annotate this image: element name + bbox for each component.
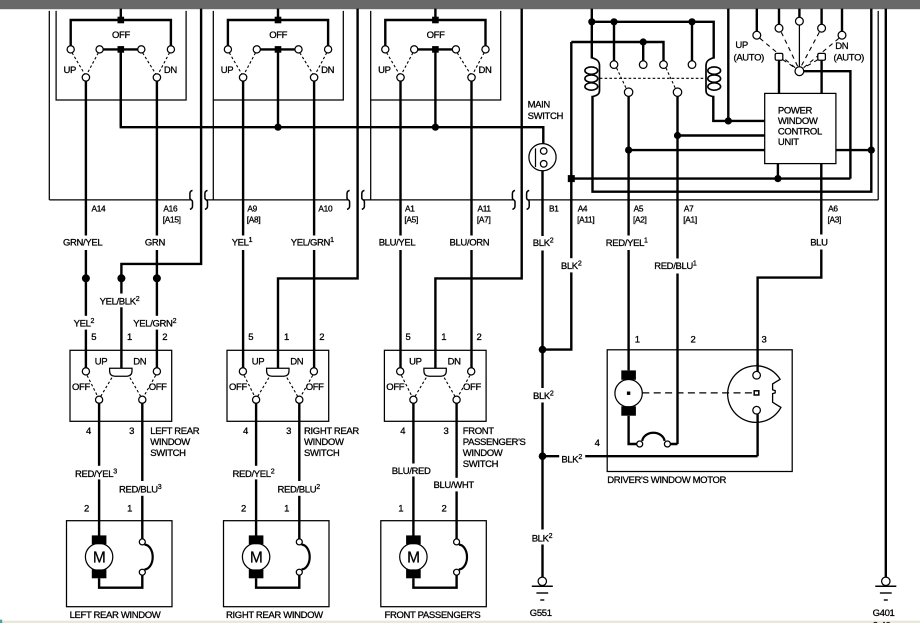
svg-text:BLU/YEL: BLU/YEL	[379, 237, 416, 248]
svg-text:RED/BLU2: RED/BLU2	[278, 484, 321, 496]
right rear window switch pin3 wire	[298, 403, 300, 539]
feeder wire J3 from top into front-passenger switch pin1	[435, 9, 521, 369]
svg-text:SWITCH: SWITCH	[304, 448, 340, 459]
svg-text:G551: G551	[530, 608, 552, 619]
relay throw dash left	[617, 68, 627, 88]
right rear window motor brush bottom	[249, 569, 264, 578]
control unit line y135.5	[678, 134, 765, 136]
svg-text:DN: DN	[164, 65, 178, 76]
label RED/BLU1	[652, 259, 704, 274]
svg-text:SWITCH: SWITCH	[150, 448, 186, 459]
svg-text:OFF: OFF	[306, 382, 324, 393]
label YEL/GRN2	[131, 316, 179, 330]
switch S3 (front passenger section of main switch) contact bar	[414, 48, 456, 50]
svg-text:A9: A9	[247, 204, 257, 214]
wire BLU/ORN (A11 column)	[470, 81, 472, 368]
svg-text:[A1]: [A1]	[683, 215, 697, 225]
wire RED/BLU1 A7 column	[676, 96, 678, 444]
right rear window switch pin5 contact	[239, 368, 246, 375]
svg-text:(AUTO): (AUTO)	[734, 52, 765, 63]
left rear window switch rocker	[110, 368, 132, 376]
label YEL2	[72, 316, 97, 330]
left coil bottom wire loop to top right	[593, 9, 872, 192]
label BLK2 B1 a	[531, 236, 558, 251]
svg-text:2: 2	[241, 503, 246, 514]
right coil bottom wire to control unit	[713, 96, 764, 121]
auto switch top stub	[841, 9, 843, 32]
left rear window motor armature circle	[85, 543, 112, 570]
switch S2 (right rear section of main switch) top wire	[228, 20, 328, 46]
switch S1 (left rear section of main switch) inner box	[56, 11, 186, 100]
svg-text:DN: DN	[479, 65, 493, 76]
switch S1 (left rear section of main switch) junction contact bar	[118, 46, 125, 53]
svg-text:DRIVER'S WINDOW MOTOR: DRIVER'S WINDOW MOTOR	[607, 475, 726, 486]
left rear window switch pin4 wire	[98, 403, 100, 535]
top gray bar	[0, 0, 920, 9]
svg-text:4: 4	[243, 426, 248, 437]
left rear window motor brush top	[92, 535, 107, 544]
wire YEL/GRN1 (A10 column)	[313, 81, 315, 368]
connector brace 4	[362, 190, 365, 209]
switch S1 (left rear section of main switch) feed stub from top	[120, 9, 122, 20]
svg-text:OFF: OFF	[463, 382, 481, 393]
auto switch dashes	[760, 32, 839, 68]
svg-text:UNIT: UNIT	[778, 137, 799, 148]
svg-text:RED/YEL1: RED/YEL1	[606, 237, 648, 249]
switch S3 (front passenger section of main switch) feed stub from top	[434, 9, 436, 20]
auto switch top stub	[798, 9, 800, 18]
main switch assembly bottom edge / connector row	[49, 199, 878, 201]
feeder wire J1 from top into YEL/BLK2	[121, 9, 201, 369]
svg-text:RIGHT REAR: RIGHT REAR	[304, 426, 359, 437]
switch S1 (left rear section of main switch) DN contact	[153, 74, 160, 81]
label BLU/WHT	[432, 478, 480, 492]
right rear window motor bottom loop wire	[256, 575, 299, 588]
right rear window switch rocker	[267, 368, 289, 376]
relay coil left	[592, 58, 599, 97]
auto switch top contact	[775, 24, 783, 32]
line y178.6	[571, 177, 850, 179]
svg-text:[A11]: [A11]	[577, 215, 594, 225]
svg-text:(AUTO): (AUTO)	[834, 52, 865, 63]
switch S2 (right rear section of main switch) inner box	[213, 11, 343, 100]
auto switch pivot	[795, 67, 804, 76]
bus junction S3	[432, 124, 439, 131]
main switch assembly outer box right edge	[877, 11, 879, 200]
junction relay top 1	[588, 18, 595, 25]
relay fixed contact	[688, 61, 696, 69]
svg-text:[A5]: [A5]	[404, 215, 418, 225]
svg-text:B1: B1	[549, 204, 559, 214]
right rear window switch pin2 contact	[310, 368, 317, 375]
switch S2 (right rear section of main switch) center wire down	[277, 49, 279, 127]
connector brace 5	[512, 190, 515, 209]
svg-text:RED/YEL3: RED/YEL3	[75, 469, 117, 481]
svg-text:PASSENGER'S: PASSENGER'S	[463, 437, 526, 448]
svg-text:A16: A16	[163, 204, 178, 214]
left rear window switch pin4 contact	[96, 396, 103, 403]
label RED/YEL1	[604, 236, 656, 251]
left rear window switch pin5 contact	[82, 368, 89, 375]
left rear window motor breaker bottom contact	[139, 569, 145, 575]
svg-text:WINDOW: WINDOW	[150, 437, 190, 448]
wire BLU/YEL (A1 column)	[399, 81, 401, 368]
svg-text:3: 3	[443, 426, 448, 437]
left rear window motor brush bottom	[92, 569, 107, 578]
right rear window switch pin4 wire	[255, 403, 257, 535]
switch S1 (left rear section of main switch) contact bar	[100, 48, 142, 50]
bus junction S2	[274, 124, 281, 131]
auto DN wire	[820, 61, 822, 94]
left rear window motor box	[67, 521, 173, 607]
svg-text:WINDOW: WINDOW	[778, 116, 818, 127]
switch S1 (left rear section of main switch) contact	[167, 46, 174, 53]
wire stub into disc to top contact	[756, 364, 758, 372]
svg-text:1: 1	[127, 503, 132, 514]
left rear window motor bottom loop wire	[99, 575, 142, 588]
label GRN/YEL	[62, 236, 103, 251]
svg-text:DN: DN	[448, 357, 462, 368]
switch S2 (right rear section of main switch) junction top	[275, 17, 282, 24]
svg-text:3: 3	[762, 335, 767, 346]
svg-text:BLU/RED: BLU/RED	[392, 466, 431, 477]
auto switch center line	[798, 25, 800, 67]
auto switch UP contact	[775, 53, 783, 60]
switch S3 (front passenger section of main switch) contact	[482, 46, 489, 53]
splice dot J1 column	[117, 274, 125, 282]
driver's motor armature	[615, 380, 642, 407]
front passenger's window motor breaker arc	[459, 545, 467, 570]
svg-text:OFF: OFF	[269, 30, 287, 41]
S2 left edge extension to connector row	[212, 100, 214, 200]
svg-text:M: M	[93, 550, 106, 567]
label BLU/RED	[390, 464, 435, 477]
front passenger's window switch pin3 wire	[455, 403, 457, 539]
right rear window motor breaker arc	[302, 545, 310, 570]
switch S2 (right rear section of main switch) contact	[253, 46, 260, 53]
svg-text:OFF: OFF	[229, 382, 247, 393]
junction stub y178.6	[774, 175, 781, 182]
wire BLK2 B1 column down to G551	[541, 171, 543, 577]
auto switch top contact	[796, 17, 804, 25]
switch S3 (front passenger section of main switch) inner box	[371, 11, 501, 100]
switch S3 (front passenger section of main switch) contact	[411, 46, 418, 53]
front passenger's window switch pin3 contact	[453, 396, 460, 403]
front passenger's window motor box	[381, 521, 487, 607]
svg-text:FRONT: FRONT	[463, 426, 495, 437]
front passenger's window switch pin4 contact	[410, 396, 417, 403]
power window control unit box	[765, 93, 836, 163]
svg-text:M: M	[407, 550, 420, 567]
switch S1 (left rear section of main switch) UP contact	[82, 74, 89, 81]
left rear window switch pin3 contact	[139, 396, 146, 403]
svg-text:A4: A4	[578, 204, 588, 214]
svg-text:RED/YEL2: RED/YEL2	[233, 469, 275, 481]
switch S3 (front passenger section of main switch) DN contact	[468, 74, 475, 81]
front passenger's window switch box	[384, 350, 486, 421]
switch S2 (right rear section of main switch) dashed throw UP side	[229, 53, 255, 75]
switch S1 (left rear section of main switch) top wire	[71, 20, 171, 46]
svg-text:RED/BLU1: RED/BLU1	[654, 260, 697, 272]
svg-text:1: 1	[284, 503, 289, 514]
svg-text:UP: UP	[95, 357, 108, 368]
ground G401	[882, 577, 890, 585]
right rear window motor armature circle	[242, 543, 269, 570]
main switch power feed circle	[529, 144, 556, 171]
front passenger's window switch rocker	[424, 368, 446, 376]
switch S1 (left rear section of main switch) center wire down	[120, 49, 122, 127]
switch S3 (front passenger section of main switch) junction contact bar	[432, 46, 439, 53]
switch S1 (left rear section of main switch) dashed throw UP side	[72, 53, 98, 75]
switch S3 (front passenger section of main switch) dashed throw DN side	[457, 53, 484, 75]
front passenger's window switch pin4 wire	[412, 403, 414, 535]
svg-text:DN: DN	[290, 357, 304, 368]
splice dot A14 column	[82, 274, 90, 282]
svg-text:1: 1	[441, 332, 446, 343]
connector brace 6	[527, 190, 530, 209]
svg-text:A11: A11	[478, 204, 492, 214]
wire BLU A6 column	[758, 164, 822, 371]
front passenger's window switch pin2 contact	[468, 368, 475, 375]
svg-text:2: 2	[441, 503, 446, 514]
switch S2 (right rear section of main switch) feed stub from top	[277, 9, 279, 20]
svg-text:OFF: OFF	[386, 382, 404, 393]
pin4 ground wire	[543, 455, 758, 457]
svg-text:A6: A6	[828, 204, 838, 214]
label RED/YEL2	[231, 466, 287, 480]
junction A5/control unit	[625, 147, 632, 154]
auto switch top stub	[756, 9, 758, 32]
auto switch top contact	[838, 31, 846, 39]
svg-text:BLU: BLU	[810, 237, 828, 248]
svg-text:UP: UP	[409, 357, 422, 368]
svg-text:RIGHT REAR WINDOW: RIGHT REAR WINDOW	[226, 610, 323, 621]
bottom edge strip	[0, 621, 920, 623]
svg-text:OFF: OFF	[427, 30, 445, 41]
left rear window switch box	[70, 350, 172, 421]
relay fixed contact	[660, 61, 668, 69]
svg-text:UP: UP	[735, 40, 748, 51]
front passenger's window switch dashed throws	[401, 375, 470, 396]
right rear window motor brush top	[249, 535, 264, 544]
svg-text:3: 3	[129, 426, 134, 437]
driver's motor sensor disc	[728, 366, 781, 423]
connector brace 3	[347, 190, 350, 209]
right rear window switch dashed throws	[244, 375, 313, 396]
front passenger's window motor armature circle	[400, 543, 427, 570]
switch S2 (right rear section of main switch) contact	[325, 46, 332, 53]
front passenger's window motor brush bottom	[406, 569, 421, 578]
main switch assembly outer box left edge	[48, 11, 50, 200]
right rear window motor box	[224, 521, 330, 607]
svg-text:5: 5	[248, 332, 253, 343]
switch S2 (right rear section of main switch) contact	[295, 46, 302, 53]
wire GRN-YEL/GRN2 (A16 column)	[156, 81, 158, 368]
svg-text:1: 1	[635, 335, 640, 346]
svg-text:1: 1	[127, 332, 132, 343]
label RED/BLU2	[276, 481, 325, 496]
switch S1 (left rear section of main switch) contact	[96, 46, 103, 53]
svg-text:3: 3	[286, 426, 291, 437]
wire GRN/YEL-YEL2 (A14 column)	[85, 81, 87, 368]
junction BLK pin4 line	[539, 452, 547, 460]
svg-text:UP: UP	[221, 65, 234, 76]
right rear window switch box	[227, 350, 329, 421]
svg-text:RED/BLU3: RED/BLU3	[119, 484, 162, 496]
switch S1 (left rear section of main switch) contact	[138, 46, 145, 53]
junction right column y150	[868, 147, 875, 154]
svg-text:2: 2	[319, 332, 324, 343]
left rear window motor breaker top contact	[139, 539, 145, 545]
svg-text:WINDOW: WINDOW	[304, 437, 344, 448]
relay throw dash right	[666, 68, 675, 88]
front passenger's window switch pin5 contact	[397, 368, 404, 375]
switch S2 (right rear section of main switch) dashed throw DN side	[300, 53, 327, 75]
relay mechanical link dashes	[600, 77, 706, 79]
label BLK2 A4	[559, 258, 586, 272]
driver's motor shaft dashes	[642, 392, 753, 394]
left rear window motor breaker arc	[145, 545, 153, 570]
switch S2 (right rear section of main switch) contact	[224, 46, 231, 53]
switch S2 (right rear section of main switch) DN contact	[310, 74, 317, 81]
svg-text:LEFT REAR WINDOW: LEFT REAR WINDOW	[70, 610, 161, 621]
label YEL/GRN1	[289, 236, 339, 251]
left rear window switch dashed throws	[87, 375, 156, 396]
auto UP wire	[778, 61, 780, 94]
svg-text:BLU/ORN: BLU/ORN	[450, 237, 490, 248]
svg-text:M: M	[250, 550, 263, 567]
svg-text:GRN: GRN	[145, 237, 166, 248]
switch S3 (front passenger section of main switch) junction top	[432, 17, 439, 24]
svg-text:YEL/BLK2: YEL/BLK2	[100, 296, 140, 308]
svg-text:BLU/WHT: BLU/WHT	[434, 480, 475, 491]
wire RED/YEL1 A5 column	[627, 96, 629, 370]
junction y120.9	[725, 117, 732, 124]
svg-text:UP: UP	[378, 65, 391, 76]
wire BLK2 A4 column	[543, 42, 572, 350]
junction A4 y178.6	[568, 175, 575, 182]
label YEL1	[230, 236, 257, 251]
junction A7/control unit	[674, 132, 681, 139]
relay top feed wire left	[591, 9, 593, 59]
switch S3 (front passenger section of main switch) UP contact	[397, 74, 404, 81]
relay coil right	[706, 58, 713, 97]
switch S2 (right rear section of main switch) UP contact	[239, 74, 246, 81]
driver's window motor box	[607, 350, 792, 472]
svg-text:[A3]: [A3]	[828, 215, 842, 225]
label BLU/YEL	[377, 236, 418, 251]
svg-text:LEFT REAR: LEFT REAR	[150, 426, 199, 437]
switch S2 (right rear section of main switch) contact bar	[257, 48, 299, 50]
switch S3 (front passenger section of main switch) contact	[382, 46, 389, 53]
wire from top to y120.9	[727, 9, 729, 121]
feeder wire J2 from top into right-rear switch pin1	[278, 9, 358, 369]
connector brace 2	[205, 190, 208, 209]
svg-text:OFF: OFF	[112, 30, 130, 41]
control unit line y150.1 left	[629, 149, 765, 151]
S3 left edge extension to connector row	[370, 100, 372, 200]
junction BLK A4-jog	[539, 346, 547, 354]
label BLK2 pin4	[559, 451, 585, 466]
label BLU/ORN	[448, 236, 490, 251]
svg-text:[A7]: [A7]	[477, 215, 491, 225]
auto switch top contact	[818, 24, 826, 32]
auto switch top contact	[753, 31, 761, 39]
front passenger's window motor bottom loop wire	[413, 575, 456, 588]
pivot common wire to y178.6	[804, 71, 851, 178]
svg-text:A1: A1	[405, 204, 415, 214]
driver's motor breaker	[629, 416, 678, 444]
svg-text:2: 2	[477, 332, 482, 343]
label GRN	[143, 236, 167, 251]
svg-text:FRONT PASSENGER'S: FRONT PASSENGER'S	[385, 610, 481, 621]
svg-text:YEL/GRN2: YEL/GRN2	[133, 318, 176, 330]
relay moving contact left	[624, 88, 632, 96]
ground G551	[538, 577, 546, 585]
svg-text:UP: UP	[252, 357, 265, 368]
svg-text:A14: A14	[92, 204, 107, 214]
label BLU	[808, 235, 833, 250]
switch S3 (front passenger section of main switch) dashed throw UP side	[387, 53, 413, 75]
driver's motor disc bottom wire	[756, 414, 758, 456]
svg-text:4: 4	[595, 438, 600, 449]
control unit line y150.1 right	[836, 149, 871, 151]
svg-text:A10: A10	[318, 204, 333, 214]
svg-text:1: 1	[398, 503, 403, 514]
relay top bus	[592, 22, 714, 59]
svg-text:1: 1	[284, 332, 289, 343]
svg-text:WINDOW: WINDOW	[463, 448, 503, 459]
switch S1 (left rear section of main switch) dashed throw DN side	[143, 53, 170, 75]
control unit bottom stub	[777, 164, 779, 179]
svg-text:A7: A7	[684, 204, 694, 214]
front passenger's window motor brush top	[406, 535, 421, 544]
switch S3 (front passenger section of main switch) center wire down	[434, 49, 436, 127]
label YEL/BLK2	[98, 294, 146, 308]
svg-text:SWITCH: SWITCH	[528, 111, 564, 122]
svg-text:2: 2	[691, 335, 696, 346]
right rear window switch pin3 contact	[296, 396, 303, 403]
svg-text:OFF: OFF	[72, 382, 90, 393]
splice dot A16 column	[153, 274, 161, 282]
auto switch DN contact	[818, 53, 826, 60]
switch S2 (right rear section of main switch) junction contact bar	[275, 46, 282, 53]
svg-text:2: 2	[84, 503, 89, 514]
right rear window motor breaker bottom contact	[296, 569, 302, 575]
label RED/YEL3	[73, 466, 130, 480]
svg-text:SWITCH: SWITCH	[463, 459, 499, 470]
auto switch top stub	[820, 9, 822, 25]
auto switch top stub	[778, 9, 780, 25]
svg-text:OFF: OFF	[149, 382, 167, 393]
svg-text:5: 5	[91, 332, 96, 343]
junction relay top 3	[688, 18, 695, 25]
svg-text:[A15]: [A15]	[163, 215, 181, 225]
bus wire from S1 center to main switch power circle	[121, 53, 544, 144]
svg-text:DN: DN	[321, 65, 335, 76]
wire A4 top segment with horizontal at y42	[571, 22, 692, 61]
label RED/BLU3	[117, 481, 171, 496]
svg-text:UP: UP	[64, 65, 77, 76]
svg-text:YEL/GRN1: YEL/GRN1	[291, 237, 334, 249]
connector brace 1	[190, 190, 193, 209]
switch S3 (front passenger section of main switch) top wire	[385, 20, 485, 46]
svg-text:DN: DN	[835, 41, 849, 52]
relay fixed contact	[639, 61, 647, 69]
svg-text:5: 5	[406, 332, 411, 343]
right rear window motor breaker top contact	[296, 539, 302, 545]
svg-text:4: 4	[400, 426, 405, 437]
